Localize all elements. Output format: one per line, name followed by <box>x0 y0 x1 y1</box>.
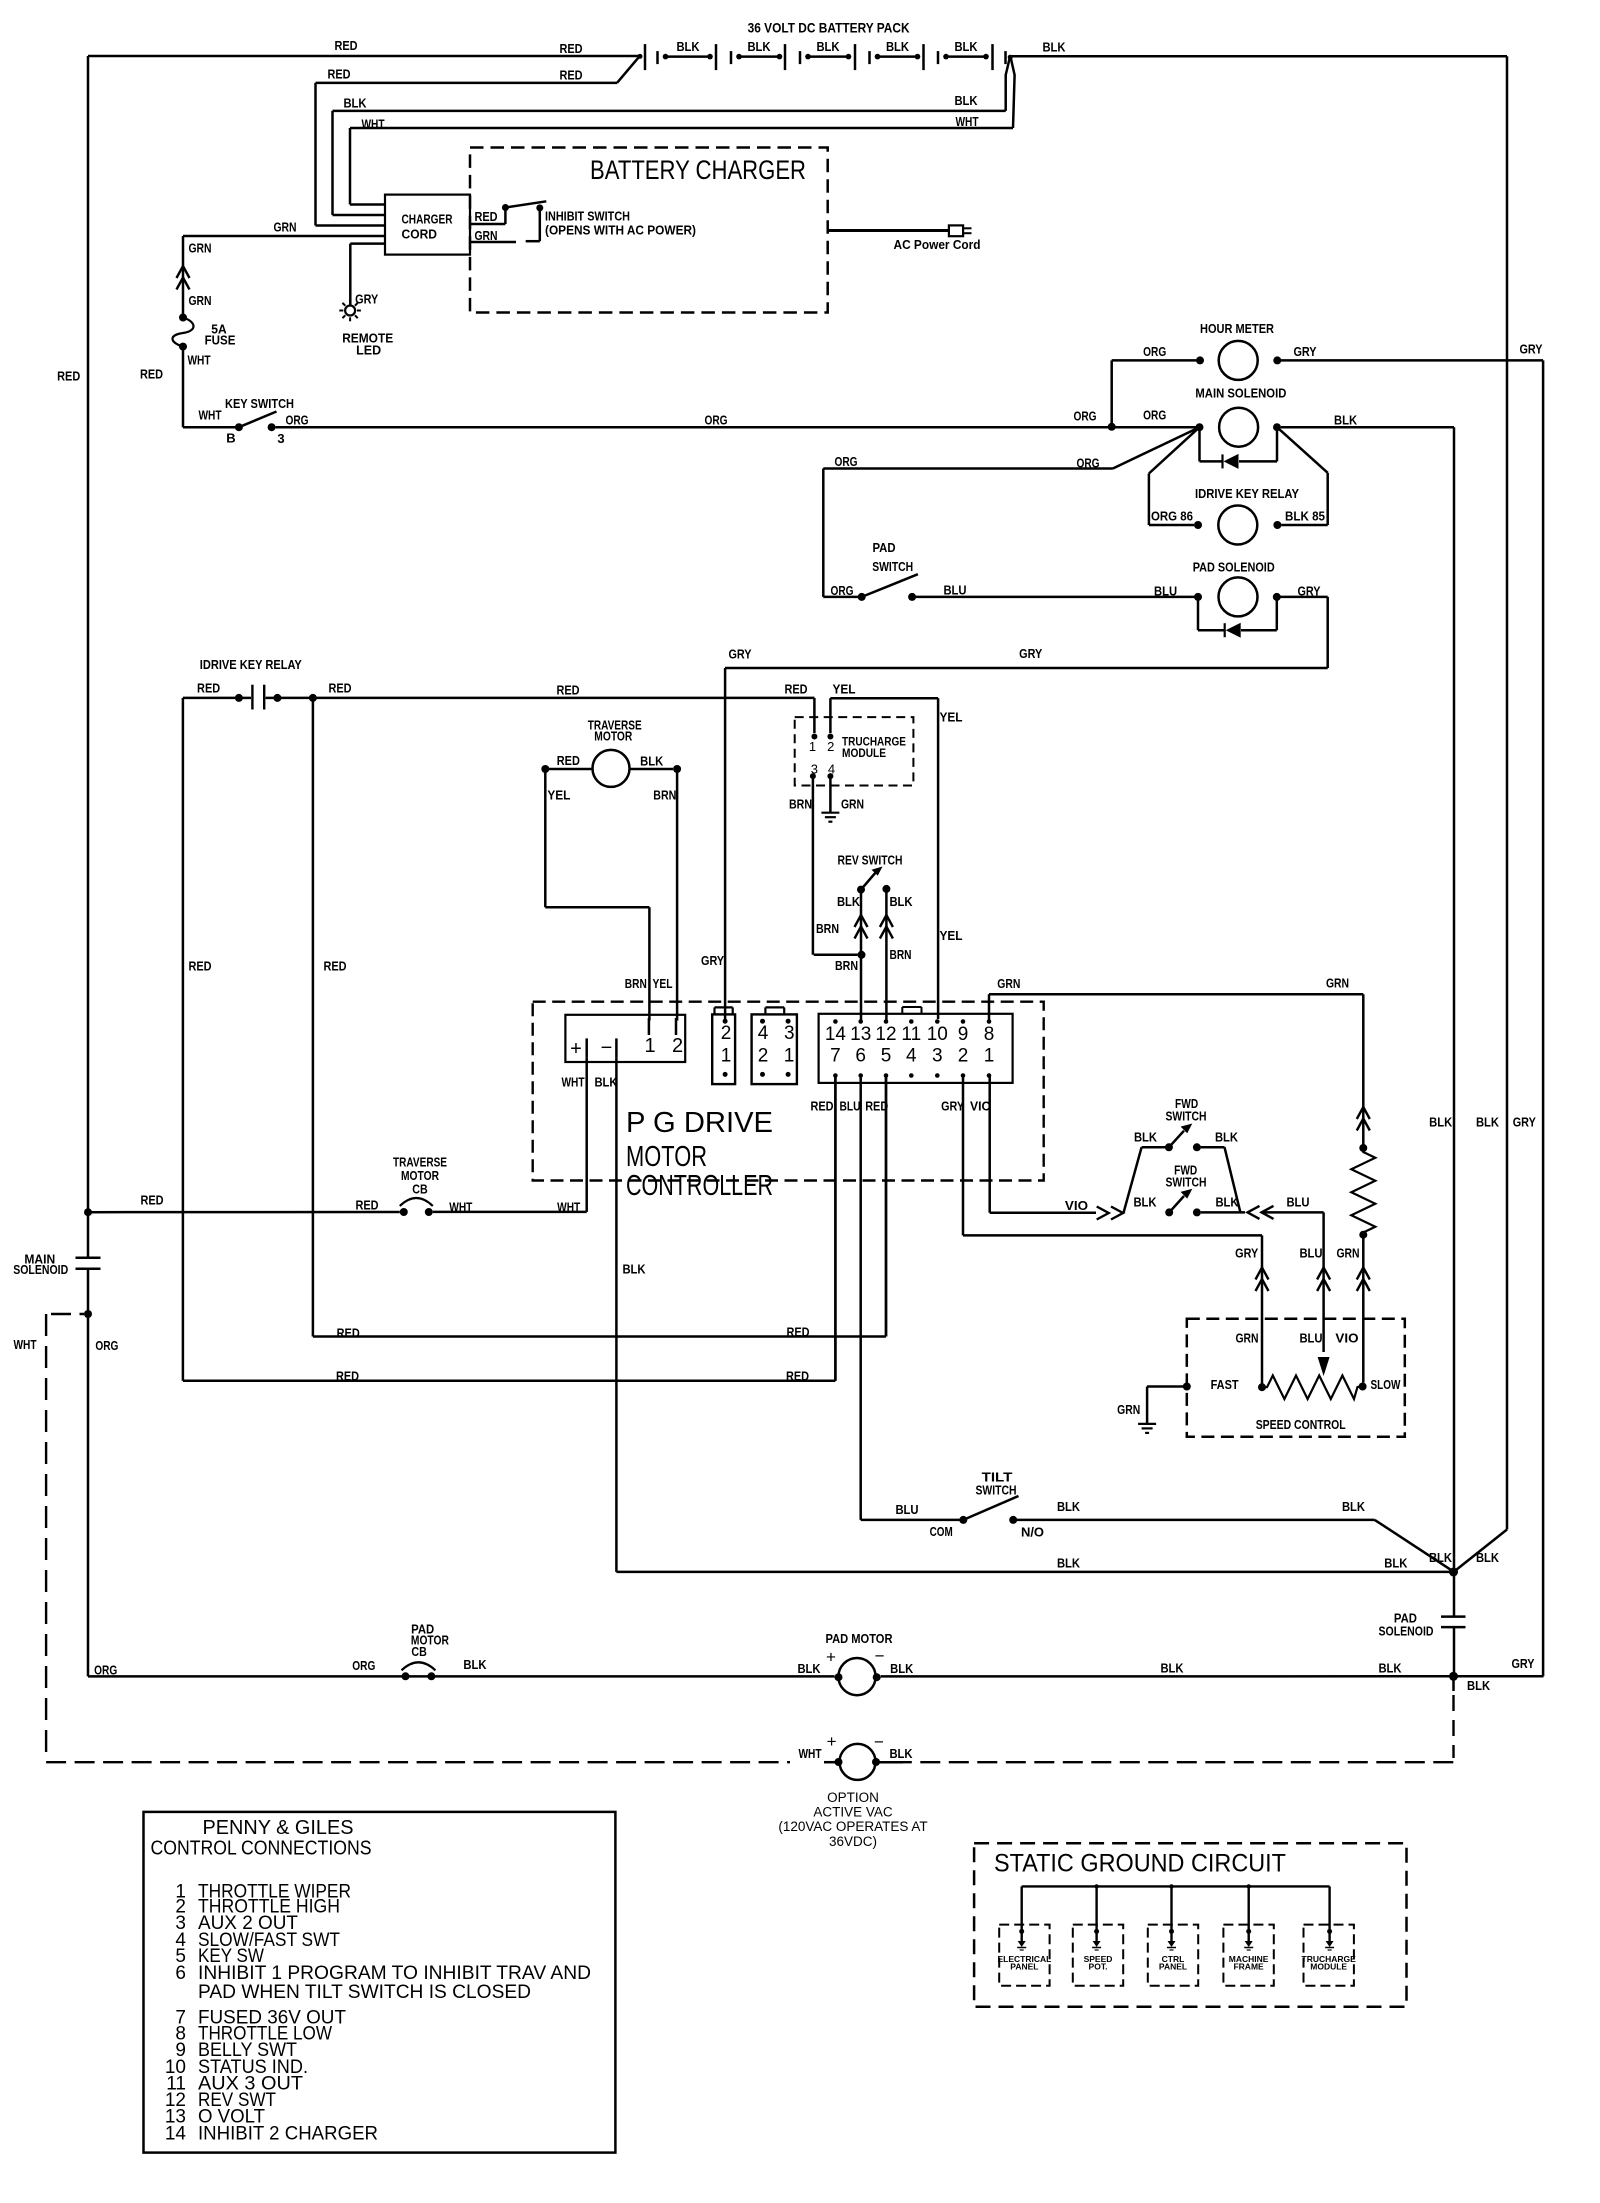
svg-text:WHT: WHT <box>798 1746 821 1761</box>
svg-text:BLK: BLK <box>1057 1499 1081 1514</box>
svg-text:CORD: CORD <box>402 228 438 242</box>
svg-text:RED: RED <box>336 1369 359 1384</box>
svg-text:FUSE: FUSE <box>205 333 236 348</box>
svg-text:BLK: BLK <box>1476 1115 1500 1130</box>
svg-text:BLK: BLK <box>1429 1550 1453 1565</box>
svg-text:ORG: ORG <box>1076 456 1099 471</box>
svg-text:BLU: BLU <box>1299 1245 1322 1260</box>
svg-text:+: + <box>827 1732 837 1751</box>
svg-text:BLK: BLK <box>1160 1661 1184 1676</box>
svg-text:GRN: GRN <box>997 976 1020 991</box>
svg-text:WHT: WHT <box>361 117 384 132</box>
svg-text:GRN: GRN <box>188 241 211 256</box>
svg-text:ORG: ORG <box>830 583 853 598</box>
svg-text:BLK: BLK <box>463 1657 487 1672</box>
svg-text:1: 1 <box>809 739 816 754</box>
svg-text:ORG: ORG <box>1143 344 1166 359</box>
svg-text:1: 1 <box>784 1046 795 1067</box>
svg-text:ORG: ORG <box>834 454 857 469</box>
svg-text:YEL: YEL <box>547 788 570 803</box>
svg-text:WHT: WHT <box>557 1200 580 1215</box>
svg-text:GRY: GRY <box>701 953 724 968</box>
svg-text:BLK: BLK <box>1467 1678 1491 1693</box>
svg-text:3: 3 <box>932 1045 943 1066</box>
svg-text:ORG 86: ORG 86 <box>1151 509 1193 524</box>
svg-text:10: 10 <box>927 1024 948 1045</box>
svg-text:VIO: VIO <box>1335 1331 1358 1346</box>
svg-text:PAD SOLENOID: PAD SOLENOID <box>1193 560 1275 575</box>
svg-text:(120VAC OPERATES AT: (120VAC OPERATES AT <box>778 1819 927 1834</box>
svg-text:GRN: GRN <box>188 293 211 308</box>
svg-text:GRY: GRY <box>1235 1245 1258 1260</box>
svg-text:CONTROL CONNECTIONS: CONTROL CONNECTIONS <box>151 1838 372 1860</box>
svg-text:ORG: ORG <box>1143 408 1166 423</box>
svg-text:SWITCH: SWITCH <box>1166 1109 1207 1124</box>
svg-text:BLK: BLK <box>837 894 861 909</box>
svg-text:12: 12 <box>875 1024 896 1045</box>
svg-text:BLK: BLK <box>816 39 840 54</box>
svg-text:BLK: BLK <box>1134 1129 1158 1144</box>
svg-text:CB: CB <box>411 1644 426 1659</box>
svg-text:6: 6 <box>855 1045 866 1066</box>
svg-text:B: B <box>226 431 235 446</box>
svg-text:POT.: POT. <box>1089 1962 1108 1972</box>
svg-text:SWITCH: SWITCH <box>976 1483 1017 1498</box>
svg-text:BLK: BLK <box>1342 1499 1366 1514</box>
svg-text:MODULE: MODULE <box>1310 1962 1347 1972</box>
svg-text:6: 6 <box>175 1963 186 1984</box>
svg-text:1: 1 <box>644 1035 655 1057</box>
svg-text:1: 1 <box>721 1046 732 1067</box>
svg-text:BRN: BRN <box>890 947 912 962</box>
svg-text:4: 4 <box>758 1023 769 1044</box>
svg-text:BLU: BLU <box>1154 583 1177 598</box>
svg-text:BLU: BLU <box>895 1502 918 1517</box>
svg-text:2: 2 <box>758 1046 769 1067</box>
svg-text:14: 14 <box>165 2123 187 2144</box>
svg-text:2: 2 <box>827 739 834 754</box>
svg-text:(OPENS WITH AC POWER): (OPENS WITH AC POWER) <box>545 224 696 238</box>
svg-text:BRN: BRN <box>816 921 839 936</box>
svg-text:RED: RED <box>557 753 580 768</box>
svg-text:BLK: BLK <box>1215 1129 1239 1144</box>
svg-text:INHIBIT 2 CHARGER: INHIBIT 2 CHARGER <box>198 2123 378 2144</box>
svg-text:RED: RED <box>140 367 163 382</box>
svg-text:PAD MOTOR: PAD MOTOR <box>826 1631 894 1646</box>
svg-text:PENNY & GILES: PENNY & GILES <box>203 1817 354 1839</box>
svg-text:36VDC): 36VDC) <box>829 1834 877 1849</box>
svg-text:4: 4 <box>906 1045 917 1066</box>
svg-text:BLK: BLK <box>1133 1195 1157 1210</box>
svg-text:RED: RED <box>786 1369 809 1384</box>
svg-text:IDRIVE KEY RELAY: IDRIVE KEY RELAY <box>1195 486 1299 501</box>
svg-text:BATTERY CHARGER: BATTERY CHARGER <box>590 155 806 185</box>
svg-text:BLU: BLU <box>943 583 966 598</box>
svg-text:ACTIVE VAC: ACTIVE VAC <box>813 1805 893 1820</box>
svg-text:PANEL: PANEL <box>1159 1962 1187 1972</box>
svg-text:RED: RED <box>355 1198 378 1213</box>
svg-text:BRN: BRN <box>653 788 676 803</box>
svg-text:SWITCH: SWITCH <box>1166 1175 1207 1190</box>
svg-text:CHARGER: CHARGER <box>402 213 453 227</box>
svg-text:BLK: BLK <box>594 1075 618 1090</box>
svg-text:RED: RED <box>337 1326 360 1341</box>
svg-text:BLK: BLK <box>1042 40 1066 55</box>
svg-text:P G DRIVE: P G DRIVE <box>626 1107 773 1139</box>
svg-text:MODULE: MODULE <box>842 746 886 760</box>
svg-text:BLK: BLK <box>890 1661 914 1676</box>
svg-text:BLU: BLU <box>1299 1331 1322 1346</box>
svg-text:INHIBIT SWITCH: INHIBIT SWITCH <box>545 210 630 224</box>
svg-text:BLK: BLK <box>1476 1550 1500 1565</box>
svg-text:RED: RED <box>328 681 351 696</box>
svg-text:PAD WHEN TILT SWITCH IS CLOSED: PAD WHEN TILT SWITCH IS CLOSED <box>198 1982 531 2003</box>
svg-text:BRN: BRN <box>625 976 647 991</box>
svg-text:BLK: BLK <box>797 1661 821 1676</box>
svg-text:2: 2 <box>721 1023 732 1044</box>
svg-text:BLK: BLK <box>747 39 771 54</box>
svg-text:RED: RED <box>140 1193 163 1208</box>
svg-text:RED: RED <box>57 369 80 384</box>
svg-text:IDRIVE KEY RELAY: IDRIVE KEY RELAY <box>200 657 302 672</box>
svg-text:3: 3 <box>277 431 284 446</box>
svg-text:BLK: BLK <box>676 39 700 54</box>
svg-text:ORG: ORG <box>704 413 727 428</box>
svg-text:−: − <box>874 1733 884 1752</box>
svg-text:BLK: BLK <box>886 39 910 54</box>
svg-text:GRY: GRY <box>1513 1115 1536 1130</box>
svg-text:9: 9 <box>958 1024 969 1045</box>
svg-text:SLOW: SLOW <box>1371 1377 1402 1392</box>
svg-text:BLK: BLK <box>954 39 978 54</box>
svg-text:GRN: GRN <box>1117 1402 1140 1417</box>
svg-text:BLU: BLU <box>840 1099 861 1114</box>
svg-text:GRN: GRN <box>273 220 296 235</box>
svg-text:KEY SWITCH: KEY SWITCH <box>225 396 294 411</box>
svg-text:SOLENOID: SOLENOID <box>1379 1624 1434 1639</box>
svg-text:RED: RED <box>559 41 582 56</box>
svg-text:RED: RED <box>556 683 579 698</box>
svg-text:11: 11 <box>901 1024 921 1045</box>
svg-text:−: − <box>601 1037 613 1059</box>
svg-text:BLK: BLK <box>1378 1661 1402 1676</box>
svg-text:COM: COM <box>930 1524 953 1539</box>
svg-text:GRN: GRN <box>1235 1331 1258 1346</box>
svg-text:BLK: BLK <box>1429 1115 1453 1130</box>
svg-text:GRY: GRY <box>355 292 378 307</box>
svg-text:RED: RED <box>334 38 357 53</box>
svg-text:YEL: YEL <box>653 976 673 991</box>
svg-text:3: 3 <box>784 1023 795 1044</box>
svg-text:WHT: WHT <box>187 353 210 368</box>
svg-text:RED: RED <box>559 67 582 82</box>
svg-text:FAST: FAST <box>1211 1377 1239 1392</box>
svg-text:WHT: WHT <box>561 1075 584 1090</box>
svg-text:BLK: BLK <box>343 96 367 111</box>
svg-text:GRY: GRY <box>1019 646 1042 661</box>
svg-text:GRY: GRY <box>1511 1656 1534 1671</box>
svg-text:ORG: ORG <box>1073 409 1096 424</box>
svg-text:−: − <box>875 1647 885 1666</box>
svg-text:1: 1 <box>984 1045 995 1066</box>
svg-text:5: 5 <box>881 1045 892 1066</box>
svg-text:FRAME: FRAME <box>1233 1962 1264 1972</box>
svg-text:BRN: BRN <box>789 797 812 812</box>
svg-text:AC Power Cord: AC Power Cord <box>894 237 981 252</box>
svg-text:BLU: BLU <box>1286 1195 1309 1210</box>
svg-text:GRY: GRY <box>728 647 751 662</box>
svg-text:YEL: YEL <box>939 710 962 725</box>
svg-text:RED: RED <box>323 959 346 974</box>
svg-text:RED: RED <box>784 682 807 697</box>
svg-text:14: 14 <box>825 1024 847 1045</box>
svg-text:MOTOR: MOTOR <box>626 1141 707 1173</box>
svg-text:GRN: GRN <box>474 228 497 243</box>
svg-text:ORG: ORG <box>285 413 308 428</box>
svg-text:BLK: BLK <box>954 93 978 108</box>
svg-text:VIO: VIO <box>1065 1198 1088 1213</box>
svg-text:GRY: GRY <box>941 1099 964 1114</box>
svg-text:BRN: BRN <box>835 958 858 973</box>
svg-text:GRY: GRY <box>1519 342 1542 357</box>
svg-text:BLK 85: BLK 85 <box>1285 509 1325 524</box>
svg-text:WHT: WHT <box>198 408 221 423</box>
svg-text:VIO: VIO <box>970 1099 991 1114</box>
svg-text:PAD: PAD <box>872 540 895 555</box>
svg-text:MOTOR: MOTOR <box>594 729 632 744</box>
svg-text:BLK: BLK <box>1215 1195 1239 1210</box>
svg-text:BLK: BLK <box>622 1262 646 1277</box>
svg-text:ORG: ORG <box>352 1658 375 1673</box>
svg-text:RED: RED <box>474 209 497 224</box>
svg-text:BLK: BLK <box>640 754 664 769</box>
svg-text:GRN: GRN <box>1336 1245 1359 1260</box>
svg-text:REV SWITCH: REV SWITCH <box>838 853 903 868</box>
svg-text:SPEED CONTROL: SPEED CONTROL <box>1256 1417 1346 1432</box>
svg-text:HOUR METER: HOUR METER <box>1200 321 1275 336</box>
svg-text:RED: RED <box>786 1325 809 1340</box>
svg-text:SWITCH: SWITCH <box>872 559 913 574</box>
svg-text:OPTION: OPTION <box>827 1790 879 1805</box>
svg-text:STATIC GROUND CIRCUIT: STATIC GROUND CIRCUIT <box>994 1849 1286 1877</box>
svg-text:BLK: BLK <box>889 894 913 909</box>
svg-text:N/O: N/O <box>1021 1525 1044 1540</box>
svg-text:GRN: GRN <box>841 797 864 812</box>
svg-text:YEL: YEL <box>939 928 962 943</box>
svg-text:RED: RED <box>327 67 350 82</box>
svg-text:BLK: BLK <box>1384 1555 1408 1570</box>
svg-text:YEL: YEL <box>832 682 855 697</box>
svg-text:WHT: WHT <box>449 1200 472 1215</box>
svg-text:WHT: WHT <box>13 1337 36 1352</box>
svg-text:2: 2 <box>958 1045 969 1066</box>
svg-text:BLK: BLK <box>1334 413 1358 428</box>
svg-text:CONTROLLER: CONTROLLER <box>626 1170 773 1202</box>
svg-text:RED: RED <box>188 959 211 974</box>
svg-text:13: 13 <box>850 1024 871 1045</box>
svg-text:RED: RED <box>197 681 220 696</box>
svg-text:MAIN SOLENOID: MAIN SOLENOID <box>1195 386 1286 401</box>
svg-text:CB: CB <box>412 1182 427 1197</box>
svg-text:7: 7 <box>830 1045 841 1066</box>
svg-text:INHIBIT 1 PROGRAM TO INHIBIT T: INHIBIT 1 PROGRAM TO INHIBIT TRAV AND <box>198 1963 591 1984</box>
svg-text:BLK: BLK <box>889 1746 913 1761</box>
svg-text:SOLENOID: SOLENOID <box>13 1262 68 1277</box>
svg-text:RED: RED <box>811 1099 834 1114</box>
svg-text:2: 2 <box>672 1035 683 1057</box>
svg-text:8: 8 <box>984 1024 995 1045</box>
svg-text:LED: LED <box>356 343 381 358</box>
svg-text:ORG: ORG <box>94 1663 117 1678</box>
svg-text:+: + <box>826 1648 836 1667</box>
svg-text:BLK: BLK <box>1057 1555 1081 1570</box>
svg-text:GRY: GRY <box>1293 344 1316 359</box>
svg-text:GRN: GRN <box>1326 976 1349 991</box>
svg-text:ORG: ORG <box>95 1338 118 1353</box>
svg-text:36 VOLT DC BATTERY PACK: 36 VOLT DC BATTERY PACK <box>748 19 910 35</box>
svg-text:PANEL: PANEL <box>1010 1962 1038 1972</box>
svg-text:+: + <box>570 1038 582 1060</box>
